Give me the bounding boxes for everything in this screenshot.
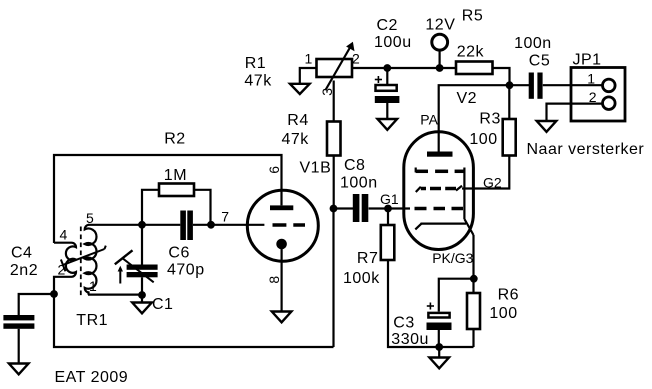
wire R4 to node A [333, 156, 335, 209]
svg-text:2n2: 2n2 [10, 262, 38, 279]
wire node K to C3 [439, 279, 474, 312]
junction node TR1 pin2 / C4 [50, 290, 58, 298]
connector JP1 [571, 68, 625, 122]
svg-text:3: 3 [319, 88, 335, 96]
cathode of V1B [276, 239, 287, 312]
svg-text:2: 2 [58, 262, 66, 278]
ground at C4 [9, 364, 29, 375]
svg-text:G2: G2 [483, 175, 502, 191]
svg-text:5: 5 [86, 210, 94, 226]
wire JP1 pin2 to ground [547, 104, 603, 121]
svg-text:C6: C6 [168, 245, 189, 262]
label C2 value [374, 17, 412, 51]
svg-text:1: 1 [305, 50, 313, 66]
label R6 value [489, 287, 519, 323]
svg-text:47k: 47k [244, 73, 272, 90]
junction node G (ground node) [435, 343, 443, 351]
label C8 value [340, 157, 378, 192]
capacitor C5 [529, 73, 543, 99]
wire grid to pin 7 [211, 224, 264, 226]
wire node to C4 [19, 294, 54, 315]
wire TR1 pin1 [88, 294, 142, 296]
svg-text:PK/G3: PK/G3 [432, 250, 473, 266]
capacitor C3 [427, 303, 452, 348]
resistor R4 [327, 122, 341, 156]
label C3 value [391, 314, 429, 348]
svg-text:6: 6 [266, 166, 282, 174]
svg-text:470p: 470p [167, 261, 205, 278]
wire TR1 pin5 to C6 [88, 224, 180, 226]
wire ground stub [438, 347, 440, 358]
wire C5 to JP1 pin1 [543, 84, 603, 86]
svg-text:8: 8 [266, 276, 282, 284]
supply 12V [432, 34, 448, 68]
wire node A down to bottom loop [332, 209, 334, 348]
potentiometer R1 [317, 42, 355, 90]
wire R5 to node B [493, 68, 510, 85]
svg-text:100n: 100n [514, 35, 552, 52]
cathode of V2 [415, 219, 473, 235]
svg-text:C4: C4 [11, 245, 32, 262]
wire R7 top [387, 209, 389, 226]
svg-text:V1B: V1B [300, 160, 332, 177]
transformer TR1 core (dashed) [80, 227, 82, 297]
svg-text:100k: 100k [343, 270, 380, 287]
wire R3 to G2 [462, 156, 509, 189]
svg-text:2: 2 [589, 89, 597, 105]
ground at R1 pin 1 [290, 84, 310, 94]
svg-text:100u: 100u [374, 34, 412, 51]
svg-text:TR1: TR1 [76, 312, 108, 329]
resistor R6 [467, 279, 480, 347]
svg-text:R1: R1 [245, 55, 266, 72]
svg-text:7: 7 [221, 209, 229, 225]
grid G2 of V2 (dashed) [416, 186, 462, 192]
junction node 7 [207, 221, 215, 229]
TR1 adjust arrow [61, 246, 106, 272]
svg-text:R2: R2 [164, 130, 185, 147]
svg-text:C8: C8 [344, 157, 365, 174]
wire bottom loop left [54, 294, 334, 347]
svg-text:C1: C1 [152, 296, 173, 313]
capacitor C4 [3, 315, 34, 364]
ground at V1B cathode [272, 312, 292, 323]
capacitor C6 [180, 211, 193, 241]
svg-text:1M: 1M [164, 167, 187, 184]
ground at C3/R6 [429, 358, 449, 369]
resistor R3 [503, 85, 516, 155]
ground at C1 [132, 295, 152, 313]
svg-text:C2: C2 [377, 17, 398, 34]
ground at C2 [378, 119, 398, 130]
svg-text:100: 100 [489, 305, 517, 322]
wire node B to C5 [510, 84, 530, 86]
resistor R7 [381, 225, 395, 260]
svg-text:1: 1 [89, 278, 97, 294]
wire node B to V2 plate column [439, 85, 510, 151]
resistor R5 [456, 62, 493, 75]
svg-text:PA: PA [420, 111, 438, 127]
svg-text:Naar versterker: Naar versterker [527, 141, 645, 158]
svg-text:2: 2 [352, 50, 360, 66]
svg-text:EAT 2009: EAT 2009 [55, 369, 129, 386]
wire pot pin2 to rail [352, 67, 456, 69]
svg-text:R4: R4 [287, 112, 308, 129]
svg-text:JP1: JP1 [573, 51, 602, 68]
svg-text:12V: 12V [425, 17, 455, 34]
capacitor C8 [353, 194, 369, 222]
wire plate to top rail [54, 155, 282, 243]
wire bottom right net [388, 261, 474, 348]
label R7 value [343, 250, 380, 287]
pentode V2 envelope [404, 132, 474, 250]
variable capacitor C1 [115, 225, 158, 295]
svg-text:R5: R5 [462, 8, 483, 25]
wire cathode to node K [472, 235, 474, 279]
wire C6 to node 7 [193, 224, 211, 226]
svg-text:100: 100 [469, 131, 497, 148]
junction node A [330, 205, 338, 213]
svg-text:R3: R3 [479, 111, 500, 128]
label C4 value [10, 245, 38, 280]
svg-text:47k: 47k [282, 131, 310, 148]
wire node A to C8 [334, 207, 354, 209]
junction node 12V/rail [436, 64, 444, 72]
label R1 value [244, 55, 272, 90]
svg-text:C5: C5 [529, 52, 550, 69]
svg-text:100n: 100n [340, 175, 378, 192]
svg-text:22k: 22k [457, 43, 485, 60]
svg-text:C3: C3 [393, 314, 414, 331]
svg-text:1: 1 [587, 70, 595, 86]
grid of V1B (dashed) [273, 223, 306, 227]
svg-text:R6: R6 [498, 287, 519, 304]
capacitor C2 [375, 68, 400, 119]
plate of V1B [270, 205, 293, 210]
wire C8 to node G1 [369, 207, 410, 209]
wire pot pin3 down to R4 [333, 81, 335, 122]
triode V1B envelope [247, 190, 318, 261]
transformer TR1 secondary [85, 225, 97, 295]
svg-text:V2: V2 [457, 90, 478, 107]
label C6 value [167, 245, 205, 279]
junction node G1 [384, 205, 392, 213]
label R4 value [282, 112, 310, 148]
grid G1 of V2 (dashed) [415, 207, 464, 211]
junction node TR1 pin1 [138, 291, 146, 299]
plate of V2 [427, 152, 453, 157]
svg-text:R7: R7 [357, 250, 378, 267]
ground at JP1 pin2 [537, 121, 557, 132]
transformer TR1 primary [54, 243, 76, 294]
svg-text:G1: G1 [380, 191, 399, 207]
label R3 value [469, 111, 500, 149]
label C5 value [514, 35, 552, 69]
svg-text:330u: 330u [391, 331, 429, 348]
junction node at C1 top [138, 221, 146, 229]
svg-text:4: 4 [60, 227, 68, 243]
junction node K [470, 275, 478, 283]
wire pot pin1 to ground [300, 68, 317, 84]
junction node C2/rail [383, 64, 391, 72]
grid G3 of V2 (dashed with ties) [416, 168, 465, 220]
junction node B [506, 81, 514, 89]
resistor R2 1M body [142, 184, 211, 225]
